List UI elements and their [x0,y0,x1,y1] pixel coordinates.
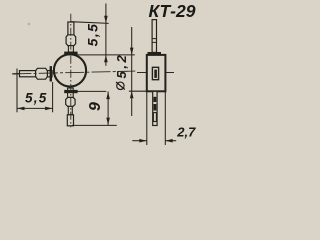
svg-text:КТ-29: КТ-29 [149,1,196,21]
svg-text:5,5: 5,5 [85,23,101,47]
svg-text:5,2: 5,2 [114,53,129,79]
svg-text:9: 9 [87,102,104,111]
svg-text:5,5: 5,5 [25,90,48,105]
svg-text:2,7: 2,7 [176,124,196,139]
